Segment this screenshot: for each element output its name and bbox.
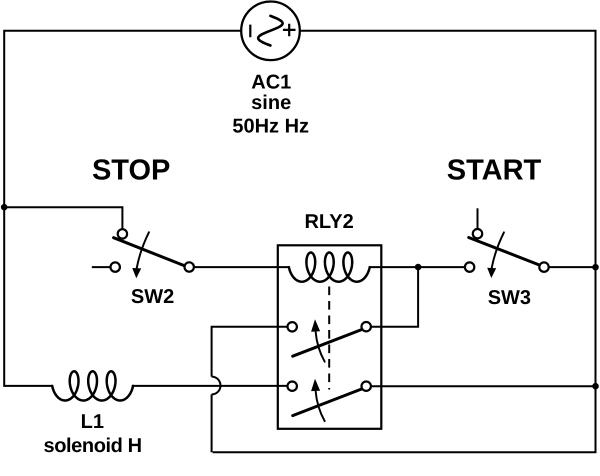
svg-text:sine: sine [251,92,291,114]
svg-text:STOP: STOP [92,155,170,187]
svg-text:RLY2: RLY2 [304,211,353,233]
svg-text:solenoid H: solenoid H [43,435,141,457]
svg-text:START: START [447,155,542,187]
svg-text:SW2: SW2 [131,286,174,308]
svg-text:AC1: AC1 [251,72,291,94]
svg-text:L1: L1 [81,411,104,433]
svg-text:SW3: SW3 [488,287,531,309]
svg-text:50Hz Hz: 50Hz Hz [232,116,309,138]
